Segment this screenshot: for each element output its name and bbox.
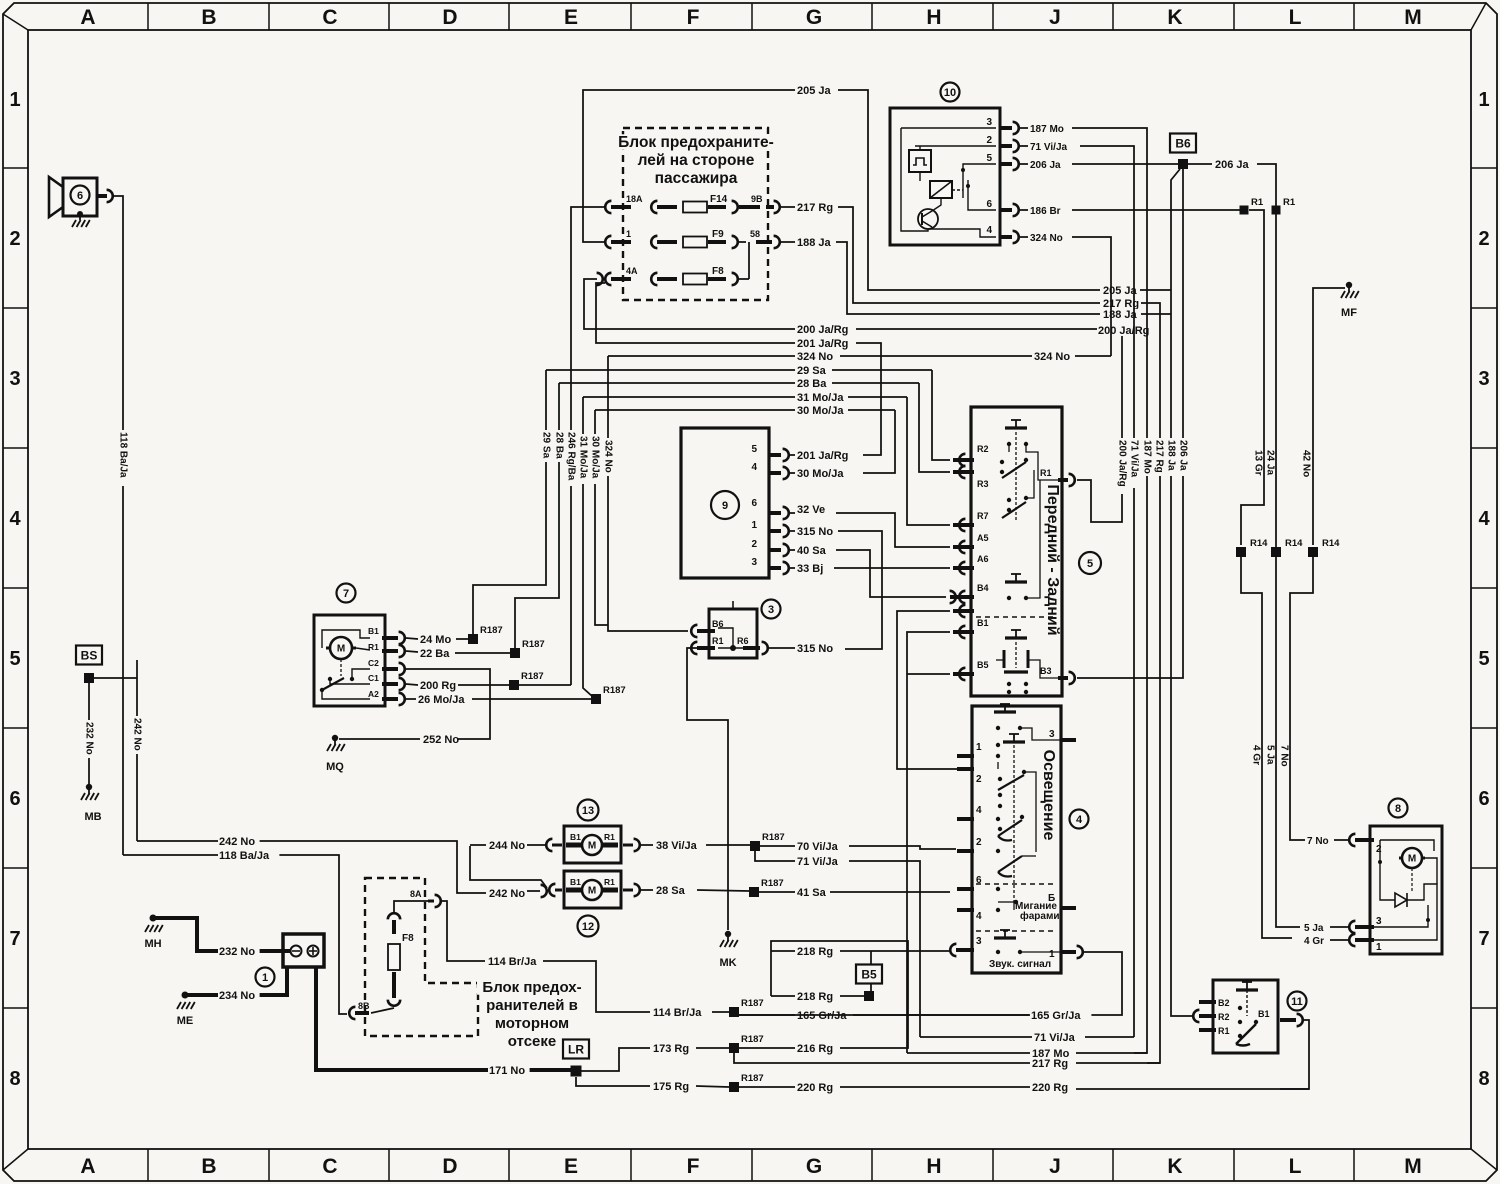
svg-text:J: J bbox=[1049, 1155, 1061, 1178]
svg-text:38 Vi/Ja: 38 Vi/Ja bbox=[656, 840, 698, 852]
wire 217 Rg drop from R187 bbox=[734, 1053, 749, 1063]
column ticks bottom band bbox=[147, 1149, 149, 1181]
svg-text:B2: B2 bbox=[1218, 998, 1230, 1008]
svg-text:R187: R187 bbox=[522, 639, 545, 650]
svg-text:114 Br/Ja: 114 Br/Ja bbox=[488, 956, 537, 968]
label 200 Ja/Rg rotated right bbox=[1117, 438, 1127, 494]
junction R14 middle bbox=[1271, 547, 1281, 557]
switch 11 lever bbox=[1236, 1024, 1256, 1044]
svg-text:2: 2 bbox=[9, 228, 20, 250]
switch 11 pin R2 bbox=[1193, 1010, 1199, 1022]
junction R187 200 Rg bbox=[509, 680, 519, 690]
svg-text:R2: R2 bbox=[1218, 1012, 1230, 1022]
fuse F14 row input connector 18A bbox=[605, 201, 611, 213]
wire R1 down to MK ground bbox=[687, 648, 728, 930]
wire B1 to 187 Mo vertical bbox=[907, 632, 950, 1053]
svg-text:R187: R187 bbox=[741, 1073, 764, 1084]
svg-text:42 No: 42 No bbox=[1301, 450, 1312, 477]
svg-text:217 Rg: 217 Rg bbox=[797, 202, 833, 214]
svg-text:71 Vi/Ja: 71 Vi/Ja bbox=[1034, 1032, 1076, 1044]
svg-text:B: B bbox=[201, 6, 216, 29]
svg-text:C: C bbox=[322, 1155, 337, 1178]
label 188 Ja rotated bbox=[1166, 438, 1176, 476]
svg-text:3: 3 bbox=[9, 368, 20, 390]
wiper 7 inner frame bbox=[322, 630, 370, 648]
svg-text:31 Mo/Ja: 31 Mo/Ja bbox=[797, 392, 844, 404]
wire 31 Mo/Ja left leg to R187 26 Mo/Ja bbox=[583, 397, 593, 697]
svg-text:205 Ja: 205 Ja bbox=[797, 85, 832, 97]
svg-text:29 Sa: 29 Sa bbox=[797, 365, 827, 377]
wire 175 Rg from LR bbox=[576, 1077, 650, 1086]
label box BS bbox=[76, 646, 102, 665]
relay 3 internals bbox=[718, 647, 743, 649]
svg-text:3: 3 bbox=[976, 936, 982, 947]
svg-text:R6: R6 bbox=[737, 636, 749, 646]
svg-text:R187: R187 bbox=[741, 1034, 764, 1045]
junction R187 22 Ba bbox=[510, 648, 520, 658]
svg-text:9B: 9B bbox=[751, 194, 763, 204]
switch 5 dashed separator bbox=[976, 616, 1057, 618]
svg-text:41 Sa: 41 Sa bbox=[797, 887, 827, 899]
svg-text:6: 6 bbox=[1478, 788, 1489, 810]
svg-text:232 No: 232 No bbox=[219, 946, 255, 958]
junction R187 24 Mo bbox=[468, 634, 478, 644]
wire 206 Ja down to switch B3 bbox=[1077, 169, 1183, 678]
svg-text:205 Ja: 205 Ja bbox=[1103, 285, 1138, 297]
junction LR bbox=[571, 1066, 582, 1077]
switch 5 pin B4 lower bbox=[959, 605, 965, 617]
wire 201 Ja/Rg nested from F8 input bbox=[596, 283, 795, 343]
svg-text:M: M bbox=[1404, 6, 1422, 29]
wire 30 Mo/Ja row bbox=[595, 409, 795, 411]
svg-text:3: 3 bbox=[1049, 729, 1055, 740]
svg-text:8: 8 bbox=[9, 1068, 20, 1090]
svg-text:A5: A5 bbox=[977, 533, 989, 543]
svg-text:217 Rg: 217 Rg bbox=[1154, 440, 1165, 473]
relay 3 pin R1 bbox=[691, 642, 697, 654]
svg-text:1: 1 bbox=[1376, 942, 1382, 953]
svg-text:18A: 18A bbox=[626, 194, 643, 204]
wire 22 Ba bbox=[406, 651, 418, 652]
wire 7 No from R14 right bbox=[1290, 557, 1313, 840]
junction R187 26 Mo/Ja bbox=[591, 694, 601, 704]
svg-text:8: 8 bbox=[1478, 1068, 1489, 1090]
switch 11 box bbox=[1213, 980, 1278, 1053]
fuse F14 output 9B bbox=[739, 205, 760, 209]
svg-text:ME: ME bbox=[177, 1015, 194, 1027]
junction BS bbox=[84, 673, 94, 683]
svg-text:220 Rg: 220 Rg bbox=[797, 1082, 833, 1094]
svg-text:7 No: 7 No bbox=[1307, 836, 1329, 847]
switch 5 internal dots mid bbox=[1007, 498, 1011, 502]
row ticks right band bbox=[1471, 167, 1497, 169]
wire 188 Ja from F9 bbox=[780, 241, 795, 243]
junction R187 173-216 bbox=[729, 1043, 739, 1053]
switch 4 lever 2 bbox=[998, 820, 1022, 836]
svg-text:R1: R1 bbox=[1251, 197, 1264, 208]
svg-text:3: 3 bbox=[1478, 368, 1489, 390]
wire B5 to 187 Mo vertical bbox=[907, 673, 950, 675]
svg-text:30 Mo/Ja: 30 Mo/Ja bbox=[590, 436, 601, 479]
svg-text:B1: B1 bbox=[1258, 1009, 1270, 1019]
svg-text:B3: B3 bbox=[1040, 666, 1052, 676]
circled number 4 bbox=[1070, 810, 1089, 829]
wire 201 Ja/Rg to component 9 pin 5 bbox=[856, 343, 881, 455]
switch 4 internal dots and levers bbox=[996, 743, 1000, 747]
wire 220 Rg from B1 bbox=[1280, 1020, 1309, 1089]
svg-text:12: 12 bbox=[582, 921, 594, 933]
svg-text:188 Ja: 188 Ja bbox=[1166, 440, 1177, 471]
svg-text:ранителей в: ранителей в bbox=[486, 997, 578, 1014]
switch 4 dashed separator 2 bbox=[976, 930, 1057, 932]
circled number 11 bbox=[1288, 992, 1307, 1011]
svg-text:A: A bbox=[80, 1155, 95, 1178]
wire 200 Ja/Rg down to switch R1 bbox=[1122, 328, 1155, 330]
corner miter diagonals bbox=[3, 14, 28, 30]
svg-text:4: 4 bbox=[751, 462, 757, 473]
svg-text:200 Ja/Rg: 200 Ja/Rg bbox=[1117, 440, 1128, 487]
svg-text:200 Rg: 200 Rg bbox=[420, 680, 456, 692]
svg-text:2: 2 bbox=[986, 135, 992, 146]
switch 5 box bbox=[971, 407, 1062, 696]
svg-text:3: 3 bbox=[768, 604, 774, 616]
svg-text:3: 3 bbox=[1376, 916, 1382, 927]
wire 246 Rg/Ba vertical to F14 input bbox=[571, 207, 605, 685]
pump 12 output bbox=[623, 889, 633, 892]
junction R187 114-165 bbox=[729, 1007, 739, 1017]
label 232 No rotated bbox=[84, 720, 94, 758]
svg-text:29 Sa: 29 Sa bbox=[541, 432, 552, 459]
wire 70 Vi/Ja bbox=[760, 845, 795, 847]
pump 12 input connector bbox=[541, 885, 547, 897]
wire 38 Vi/Ja bbox=[641, 844, 653, 846]
wire 71 Vi/Ja from pin 2 bbox=[1020, 145, 1028, 147]
junction R187 38-70 Vi/Ja bbox=[750, 841, 760, 851]
label 217 Rg right bbox=[1102, 298, 1144, 309]
wire 26 Mo/Ja bbox=[406, 698, 416, 700]
wire 206 Ja right of B6 bbox=[1188, 163, 1212, 165]
svg-text:5: 5 bbox=[1478, 648, 1489, 670]
wire 206 Ja from pin 5 to B6 bbox=[1020, 163, 1028, 165]
svg-text:2: 2 bbox=[1376, 844, 1382, 855]
svg-text:B4: B4 bbox=[977, 583, 989, 593]
svg-text:R1: R1 bbox=[1040, 468, 1052, 478]
svg-text:A2: A2 bbox=[368, 689, 379, 699]
fuse F8 row input connector 4A bbox=[597, 273, 603, 285]
svg-text:324 No: 324 No bbox=[797, 351, 833, 363]
switch 4 lever 3 bbox=[998, 856, 1022, 872]
svg-text:114 Br/Ja: 114 Br/Ja bbox=[653, 1007, 702, 1019]
washer pump 13 box bbox=[564, 826, 621, 863]
svg-text:188 Ja: 188 Ja bbox=[797, 237, 832, 249]
svg-text:Звук. сигнал: Звук. сигнал bbox=[989, 959, 1051, 970]
wire 187 Mo from pin 3 bbox=[1020, 127, 1028, 129]
svg-text:MB: MB bbox=[84, 811, 101, 823]
svg-text:234 No: 234 No bbox=[219, 990, 255, 1002]
wire 218 Rg bracket bbox=[770, 951, 772, 996]
switch 4 lever 1 bbox=[998, 775, 1024, 790]
svg-text:R14: R14 bbox=[1250, 538, 1268, 549]
svg-text:MK: MK bbox=[719, 957, 736, 969]
switch 5 pin R7 bbox=[959, 519, 965, 531]
switch 5 internal contact B4 bbox=[1015, 574, 1017, 582]
fuse F9 row input connector 1 bbox=[605, 236, 611, 248]
svg-text:лей на стороне: лей на стороне bbox=[638, 152, 755, 169]
svg-text:M: M bbox=[588, 841, 596, 852]
switch 5 internal lever 2 bbox=[1002, 502, 1026, 518]
label 246 Rg/Ba rotated bbox=[566, 430, 576, 486]
circled number 9 bbox=[711, 491, 739, 519]
svg-text:R187: R187 bbox=[761, 878, 784, 889]
svg-text:4A: 4A bbox=[626, 266, 638, 276]
svg-text:F8: F8 bbox=[712, 266, 724, 277]
wire 232 No from MH to battery bbox=[153, 918, 290, 951]
switch 4 pin 2 left bbox=[957, 767, 974, 771]
svg-text:M: M bbox=[337, 644, 345, 655]
wire F8 output up to F9 node bbox=[738, 278, 749, 280]
svg-text:242 No: 242 No bbox=[132, 718, 143, 751]
switch 4 box bbox=[972, 706, 1061, 973]
column ticks top band bbox=[147, 3, 149, 30]
label 30 Mo/Ja rotated bbox=[590, 434, 600, 484]
svg-text:201 Ja/Rg: 201 Ja/Rg bbox=[797, 450, 848, 462]
wire 206 Ja diagonal branch from B6 bbox=[1171, 169, 1180, 1015]
switch 5 internal lever 1 bbox=[1000, 460, 1004, 464]
wire 218 Rg lower bbox=[771, 995, 795, 997]
svg-text:L: L bbox=[1289, 6, 1302, 29]
svg-text:1: 1 bbox=[626, 229, 631, 239]
junction B6 bbox=[1178, 159, 1188, 169]
control unit 9 box bbox=[681, 428, 769, 578]
svg-text:5: 5 bbox=[751, 444, 757, 455]
svg-text:218 Rg: 218 Rg bbox=[797, 946, 833, 958]
label box B5 bbox=[856, 965, 882, 984]
wire 29 Sa left leg to R187 24 Mo bbox=[473, 370, 546, 634]
svg-text:B6: B6 bbox=[1175, 137, 1191, 151]
svg-text:R187: R187 bbox=[762, 832, 785, 843]
wire 28 Ba right leg to switch R3 bbox=[919, 383, 950, 472]
svg-text:1: 1 bbox=[9, 89, 20, 111]
svg-text:24 Ja: 24 Ja bbox=[1265, 450, 1276, 475]
label box B6 bbox=[1170, 134, 1196, 153]
svg-text:6: 6 bbox=[77, 190, 83, 202]
svg-text:E: E bbox=[564, 1155, 578, 1178]
pump 13 output bbox=[623, 844, 633, 847]
svg-text:R1: R1 bbox=[604, 877, 615, 887]
svg-text:B1: B1 bbox=[570, 877, 581, 887]
svg-text:LR: LR bbox=[568, 1043, 584, 1057]
junction R1 on 206 Ja bbox=[1272, 206, 1281, 215]
switch 5 pin A5 bbox=[959, 541, 965, 553]
svg-text:6: 6 bbox=[9, 788, 20, 810]
label 242 No at BS turn bbox=[218, 836, 260, 847]
svg-text:H: H bbox=[926, 1155, 941, 1178]
svg-text:отсеке: отсеке bbox=[508, 1033, 556, 1050]
junction R1 on 186 Br bbox=[1240, 206, 1249, 215]
fuse F14 mid connector bbox=[651, 201, 657, 213]
svg-text:30 Mo/Ja: 30 Mo/Ja bbox=[797, 405, 844, 417]
wire 324 No row bbox=[608, 355, 795, 357]
wire 28 Ba row bbox=[559, 382, 795, 384]
wire 118 Ba/Ja horizontal to fuse 8B bbox=[123, 855, 347, 1014]
wire 28 Sa bbox=[641, 889, 653, 891]
svg-text:71 Vi/Ja: 71 Vi/Ja bbox=[797, 856, 839, 868]
svg-text:пассажира: пассажира bbox=[655, 170, 738, 187]
svg-text:K: K bbox=[1167, 1155, 1182, 1178]
wire 242 No horizontal bbox=[137, 841, 486, 893]
svg-text:R7: R7 bbox=[977, 511, 989, 521]
label 28 Ba rotated bbox=[554, 430, 564, 462]
svg-text:118 Ba/Ja: 118 Ba/Ja bbox=[219, 850, 270, 862]
svg-text:4: 4 bbox=[1478, 508, 1490, 530]
svg-text:4: 4 bbox=[986, 225, 992, 236]
svg-text:13: 13 bbox=[582, 805, 594, 817]
svg-text:A6: A6 bbox=[977, 554, 989, 564]
svg-text:F: F bbox=[687, 1155, 700, 1178]
svg-text:1: 1 bbox=[262, 972, 268, 984]
switch 5 pin R2 bbox=[959, 454, 965, 466]
wire 71 Vi/Ja drop from R187 bbox=[755, 851, 795, 861]
svg-text:R2: R2 bbox=[977, 444, 989, 454]
svg-text:9: 9 bbox=[722, 500, 728, 512]
svg-text:D: D bbox=[442, 6, 457, 29]
relay 10 internal pulse generator bbox=[909, 150, 931, 172]
wire 205 Ja from F9 input bbox=[583, 90, 795, 242]
circled number 12 bbox=[578, 916, 599, 937]
relay 3 pin B6 bbox=[691, 625, 697, 637]
svg-text:B1: B1 bbox=[977, 618, 989, 628]
relay 10 internal wiring bbox=[901, 127, 996, 129]
svg-text:R1: R1 bbox=[604, 832, 615, 842]
wire 171 No battery positive feed bbox=[316, 967, 571, 1070]
svg-text:7: 7 bbox=[343, 588, 349, 600]
svg-text:6: 6 bbox=[986, 199, 992, 210]
label 188 Ja right bbox=[1102, 309, 1144, 320]
svg-text:206 Ja: 206 Ja bbox=[1178, 440, 1189, 471]
svg-text:315 No: 315 No bbox=[797, 643, 833, 655]
relay unit 10 circled number bbox=[941, 83, 960, 102]
switch 5 internal contact B1-B5 bbox=[1015, 630, 1017, 638]
switch 5 internal frame bbox=[1008, 444, 1010, 452]
svg-text:186 Br: 186 Br bbox=[1030, 206, 1061, 217]
svg-text:22 Ba: 22 Ba bbox=[420, 648, 450, 660]
svg-text:R14: R14 bbox=[1322, 538, 1340, 549]
label 324 No right bbox=[1033, 351, 1075, 362]
switch 4 horn section contact bbox=[1004, 930, 1006, 938]
junction R14 right bbox=[1308, 547, 1318, 557]
wire 216 Rg feed bbox=[771, 941, 908, 1048]
svg-text:B1: B1 bbox=[368, 626, 379, 636]
ground MK bbox=[725, 931, 731, 937]
wire 4 Gr from R14 left bbox=[1241, 557, 1292, 938]
relay 10 internal transistor bbox=[918, 209, 938, 229]
svg-text:324 No: 324 No bbox=[1030, 233, 1063, 244]
pump 13 input connector bbox=[546, 839, 552, 851]
svg-text:31 Mo/Ja: 31 Mo/Ja bbox=[578, 436, 589, 479]
label 29 Sa rotated bbox=[541, 430, 551, 462]
wire 188 Ja joins 206 Ja vertical bbox=[1141, 313, 1171, 315]
svg-text:G: G bbox=[806, 1155, 822, 1178]
svg-text:2: 2 bbox=[751, 539, 757, 550]
svg-text:моторном: моторном bbox=[495, 1015, 569, 1032]
circled number 7 bbox=[337, 584, 356, 603]
label 31 Mo/Ja rotated bbox=[578, 434, 588, 484]
svg-text:200 Ja/Rg: 200 Ja/Rg bbox=[797, 324, 848, 336]
svg-text:244 No: 244 No bbox=[489, 840, 525, 852]
fuse F8 passenger bbox=[683, 274, 707, 285]
svg-text:B5: B5 bbox=[977, 660, 989, 670]
svg-text:C: C bbox=[322, 6, 337, 29]
svg-text:7 No: 7 No bbox=[1279, 745, 1290, 767]
svg-text:F14: F14 bbox=[710, 194, 728, 205]
relay unit 10 box bbox=[890, 108, 1000, 245]
wire 42 No from MF ground bbox=[1313, 288, 1345, 545]
svg-text:187 Mo: 187 Mo bbox=[1030, 124, 1064, 135]
wire 118 Ba/Ja vertical from horn bbox=[112, 196, 123, 855]
svg-text:R187: R187 bbox=[521, 671, 544, 682]
svg-text:58: 58 bbox=[750, 229, 760, 239]
ground ME bbox=[182, 992, 189, 999]
svg-text:171 No: 171 No bbox=[489, 1065, 525, 1077]
svg-text:Блок предохраните-: Блок предохраните- bbox=[618, 134, 774, 151]
circled number 5 bbox=[1079, 552, 1101, 574]
wiper motor 7 box bbox=[314, 615, 385, 706]
wire 244 No bbox=[470, 844, 486, 846]
wire 31 Mo/Ja right leg to switch R7 bbox=[907, 397, 950, 525]
svg-text:200 Ja/Rg: 200 Ja/Rg bbox=[1098, 325, 1149, 337]
circled number 3 bbox=[762, 600, 781, 619]
wire 200 Ja/Rg from F8 input bbox=[584, 279, 795, 329]
svg-text:324 No: 324 No bbox=[603, 440, 614, 473]
svg-text:фарами: фарами bbox=[1020, 910, 1060, 922]
label 42 No rotated bbox=[1301, 448, 1311, 480]
wire 30 Mo/Ja right leg to component 9 pin 4 bbox=[863, 410, 895, 473]
wire 217 Rg bottom row bbox=[749, 1062, 1030, 1064]
svg-text:MF: MF bbox=[1341, 307, 1357, 319]
svg-text:R3: R3 bbox=[977, 479, 989, 489]
rear wiper motor 8 box bbox=[1370, 826, 1442, 954]
wire 200 Ja/Rg row bbox=[796, 324, 857, 335]
wire 114 Br/Ja from 8A bbox=[441, 901, 485, 961]
svg-text:3: 3 bbox=[986, 117, 992, 128]
svg-text:218 Rg: 218 Rg bbox=[797, 991, 833, 1003]
wire 24 Mo bbox=[406, 638, 418, 639]
svg-text:4: 4 bbox=[1076, 814, 1083, 826]
wire 71 Vi/Ja bottom row bbox=[920, 1036, 1032, 1038]
svg-text:206 Ja: 206 Ja bbox=[1030, 160, 1061, 171]
wire 200 Rg to 246 vertical bbox=[519, 684, 571, 686]
wire 33 Bj to switch A6 bbox=[834, 567, 950, 569]
wire 315 No output of relay 3 bbox=[769, 647, 795, 649]
motor 8 internal diode bbox=[1395, 893, 1407, 907]
motor 8 internal wiring bbox=[1380, 840, 1434, 851]
wire 188 Ja into R2 bbox=[1171, 1015, 1193, 1016]
svg-text:26 Mo/Ja: 26 Mo/Ja bbox=[418, 694, 465, 706]
svg-text:R187: R187 bbox=[480, 625, 503, 636]
wire 220 Rg bottom row bbox=[739, 1086, 795, 1088]
svg-text:B5: B5 bbox=[861, 968, 877, 982]
svg-text:28 Ba: 28 Ba bbox=[554, 432, 565, 459]
svg-text:4 Gr: 4 Gr bbox=[1304, 936, 1324, 947]
switch 4 dashed separator 1 bbox=[976, 883, 1057, 885]
svg-text:C1: C1 bbox=[368, 673, 379, 683]
wire 205 Ja to right bbox=[838, 90, 1100, 290]
svg-text:13 Gr: 13 Gr bbox=[1253, 450, 1264, 476]
wire 324 No down to component 3 bbox=[608, 356, 688, 631]
svg-text:F8: F8 bbox=[402, 933, 414, 944]
switch 4 flash section bbox=[996, 887, 1000, 891]
motor 8 internal motor bbox=[1402, 848, 1422, 868]
